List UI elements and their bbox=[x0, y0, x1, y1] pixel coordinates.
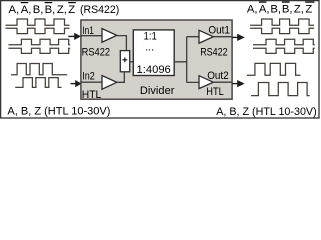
arrow out of panel to HTL icon bbox=[232, 80, 244, 87]
wave B bbox=[15, 78, 61, 88]
svg-text:RS422: RS422 bbox=[82, 47, 111, 59]
macron over B bbox=[282, 2, 290, 3]
wave A bbox=[250, 19, 314, 25]
svg-text:B,: B, bbox=[270, 4, 281, 16]
svg-text:Divider: Divider bbox=[140, 85, 175, 97]
wave A bbox=[11, 64, 67, 75]
svg-text:A,: A, bbox=[21, 4, 32, 16]
wire In2 to summing box bbox=[117, 72, 125, 82]
svg-text:Z,: Z, bbox=[57, 4, 67, 16]
wave A-bar bbox=[250, 28, 314, 33]
svg-text:A, B, Z (HTL 10-30V): A, B, Z (HTL 10-30V) bbox=[216, 106, 317, 118]
wire Out2 to panel edge bbox=[213, 81, 232, 83]
wave B bbox=[251, 83, 310, 96]
svg-text:B,: B, bbox=[45, 4, 56, 16]
wave A bbox=[6, 19, 70, 25]
converter panel bbox=[81, 20, 232, 99]
wave A-bar bbox=[6, 28, 70, 33]
macron over A bbox=[21, 2, 29, 3]
svg-text:A,: A, bbox=[247, 4, 258, 16]
svg-text:Out2: Out2 bbox=[207, 70, 229, 82]
svg-text:RS422: RS422 bbox=[200, 46, 228, 58]
arrow into In2 bbox=[71, 80, 82, 87]
waveform icon: HTL quadrature (bottom-left) bbox=[11, 64, 67, 88]
wave B bbox=[253, 39, 315, 45]
svg-text:B,: B, bbox=[282, 4, 293, 16]
svg-text:A,: A, bbox=[9, 4, 20, 16]
wire In1 input bbox=[81, 35, 102, 37]
svg-text:(RS422): (RS422) bbox=[80, 4, 120, 16]
wave B bbox=[8, 39, 70, 45]
svg-text:A, B, Z (HTL 10-30V): A, B, Z (HTL 10-30V) bbox=[7, 106, 110, 118]
divider box bbox=[133, 30, 174, 76]
svg-text:1:4096: 1:4096 bbox=[137, 64, 171, 76]
amplifier triangle In1 bbox=[102, 29, 117, 43]
macron over B bbox=[45, 2, 53, 3]
wire In2 input bbox=[81, 81, 102, 83]
macron over A bbox=[259, 2, 267, 3]
node label RS422 input signals (top-left text) bbox=[9, 4, 120, 16]
wave A bbox=[247, 63, 301, 75]
macron over Z bbox=[68, 2, 76, 3]
svg-text:Out1: Out1 bbox=[208, 24, 230, 36]
wire divider output bbox=[174, 37, 199, 83]
wire In1 to summing box bbox=[117, 36, 127, 51]
wire Out1 to panel edge bbox=[213, 36, 232, 38]
svg-text:Z: Z bbox=[305, 4, 312, 16]
wave B-bar bbox=[8, 48, 70, 53]
driver triangle Out2 bbox=[199, 76, 213, 89]
node label RS422 output signals (top-right text) bbox=[247, 4, 313, 16]
driver triangle Out1 bbox=[199, 30, 213, 43]
svg-text:B,: B, bbox=[33, 4, 44, 16]
svg-text:Z: Z bbox=[68, 4, 75, 16]
svg-text:...: ... bbox=[145, 42, 154, 54]
plus sign bbox=[122, 57, 127, 62]
arrow into In1 bbox=[68, 33, 81, 40]
svg-text:In2: In2 bbox=[82, 70, 95, 82]
svg-text:A,: A, bbox=[259, 4, 270, 16]
svg-text:Z,: Z, bbox=[294, 4, 304, 16]
wire summing box to divider bbox=[130, 61, 134, 63]
amplifier triangle In2 bbox=[102, 76, 117, 90]
svg-text:HTL: HTL bbox=[82, 89, 102, 101]
macron over Z bbox=[305, 2, 314, 3]
svg-text:In1: In1 bbox=[82, 25, 94, 37]
summing box bbox=[120, 51, 129, 72]
waveform icon: HTL quadrature (bottom-right) bbox=[247, 63, 310, 95]
svg-text:HTL: HTL bbox=[206, 86, 224, 98]
waveform icon: RS422 differential quadrature (top-right) bbox=[250, 19, 315, 53]
outer frame bbox=[1, 1, 319, 118]
arrow out of panel to RS422 icon bbox=[232, 34, 245, 41]
wave B-bar bbox=[253, 48, 315, 53]
waveform icon: RS422 differential quadrature (top-left) bbox=[6, 19, 71, 53]
